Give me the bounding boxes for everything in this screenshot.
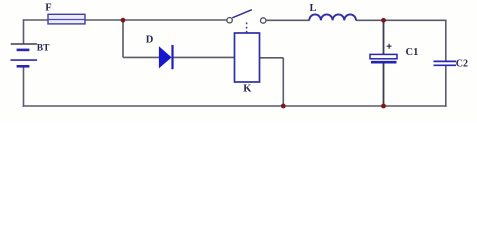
- wire left rail upper: [23, 19, 25, 43]
- svg-text:D: D: [146, 34, 154, 45]
- relay K coil box: [235, 33, 260, 82]
- inductor L coil: [309, 14, 356, 20]
- battery BT plate 4 short thick: [17, 65, 30, 68]
- wire right rail lower: [445, 66, 447, 107]
- svg-text:L: L: [310, 3, 317, 14]
- wire top rail middle segment: [266, 19, 310, 21]
- svg-text:C2: C2: [456, 59, 468, 70]
- battery BT plate 1 long: [11, 43, 37, 45]
- switch blade: [232, 10, 252, 18]
- node junction dot bottom C1: [381, 104, 386, 109]
- switch linkage dashed line: [246, 23, 248, 33]
- capacitor C2 bottom plate: [434, 64, 457, 66]
- diode D cathode bar: [171, 45, 173, 69]
- capacitor C2 top plate: [434, 60, 457, 62]
- node junction dot top right: [381, 18, 386, 23]
- svg-text:K: K: [243, 83, 252, 94]
- wire bottom rail: [23, 105, 447, 107]
- switch left contact circle: [227, 18, 232, 23]
- node junction dot top left: [121, 18, 126, 23]
- wire diode row left: [123, 56, 160, 58]
- fuse F body: [48, 14, 85, 24]
- battery BT plate 3 long: [11, 59, 38, 61]
- capacitor C1 top plate rectangle: [370, 54, 397, 58]
- wire left rail lower: [23, 67, 25, 107]
- wire relay output horizontal: [260, 57, 284, 59]
- wire top rail left segment: [24, 19, 228, 21]
- svg-text:F: F: [45, 3, 51, 14]
- wire diode branch vertical drop: [122, 20, 124, 57]
- wire diode row right to relay: [173, 56, 235, 58]
- wire C1 upper stub: [383, 20, 385, 54]
- wire relay output vertical: [282, 58, 284, 106]
- wire right rail upper: [445, 20, 447, 62]
- node junction dot bottom relay: [281, 104, 286, 109]
- svg-text:C1: C1: [406, 47, 419, 58]
- capacitor C1 bottom plate: [371, 61, 397, 64]
- wire C1 lower stub: [383, 63, 385, 106]
- capacitor C1 plus sign: [387, 44, 392, 49]
- diode D triangle: [159, 46, 172, 68]
- battery BT plate 2 short thick: [17, 49, 30, 52]
- wire top rail right segment: [356, 19, 447, 21]
- svg-text:BT: BT: [37, 44, 50, 54]
- switch right contact circle: [261, 18, 266, 23]
- fuse F middle line: [48, 19, 85, 21]
